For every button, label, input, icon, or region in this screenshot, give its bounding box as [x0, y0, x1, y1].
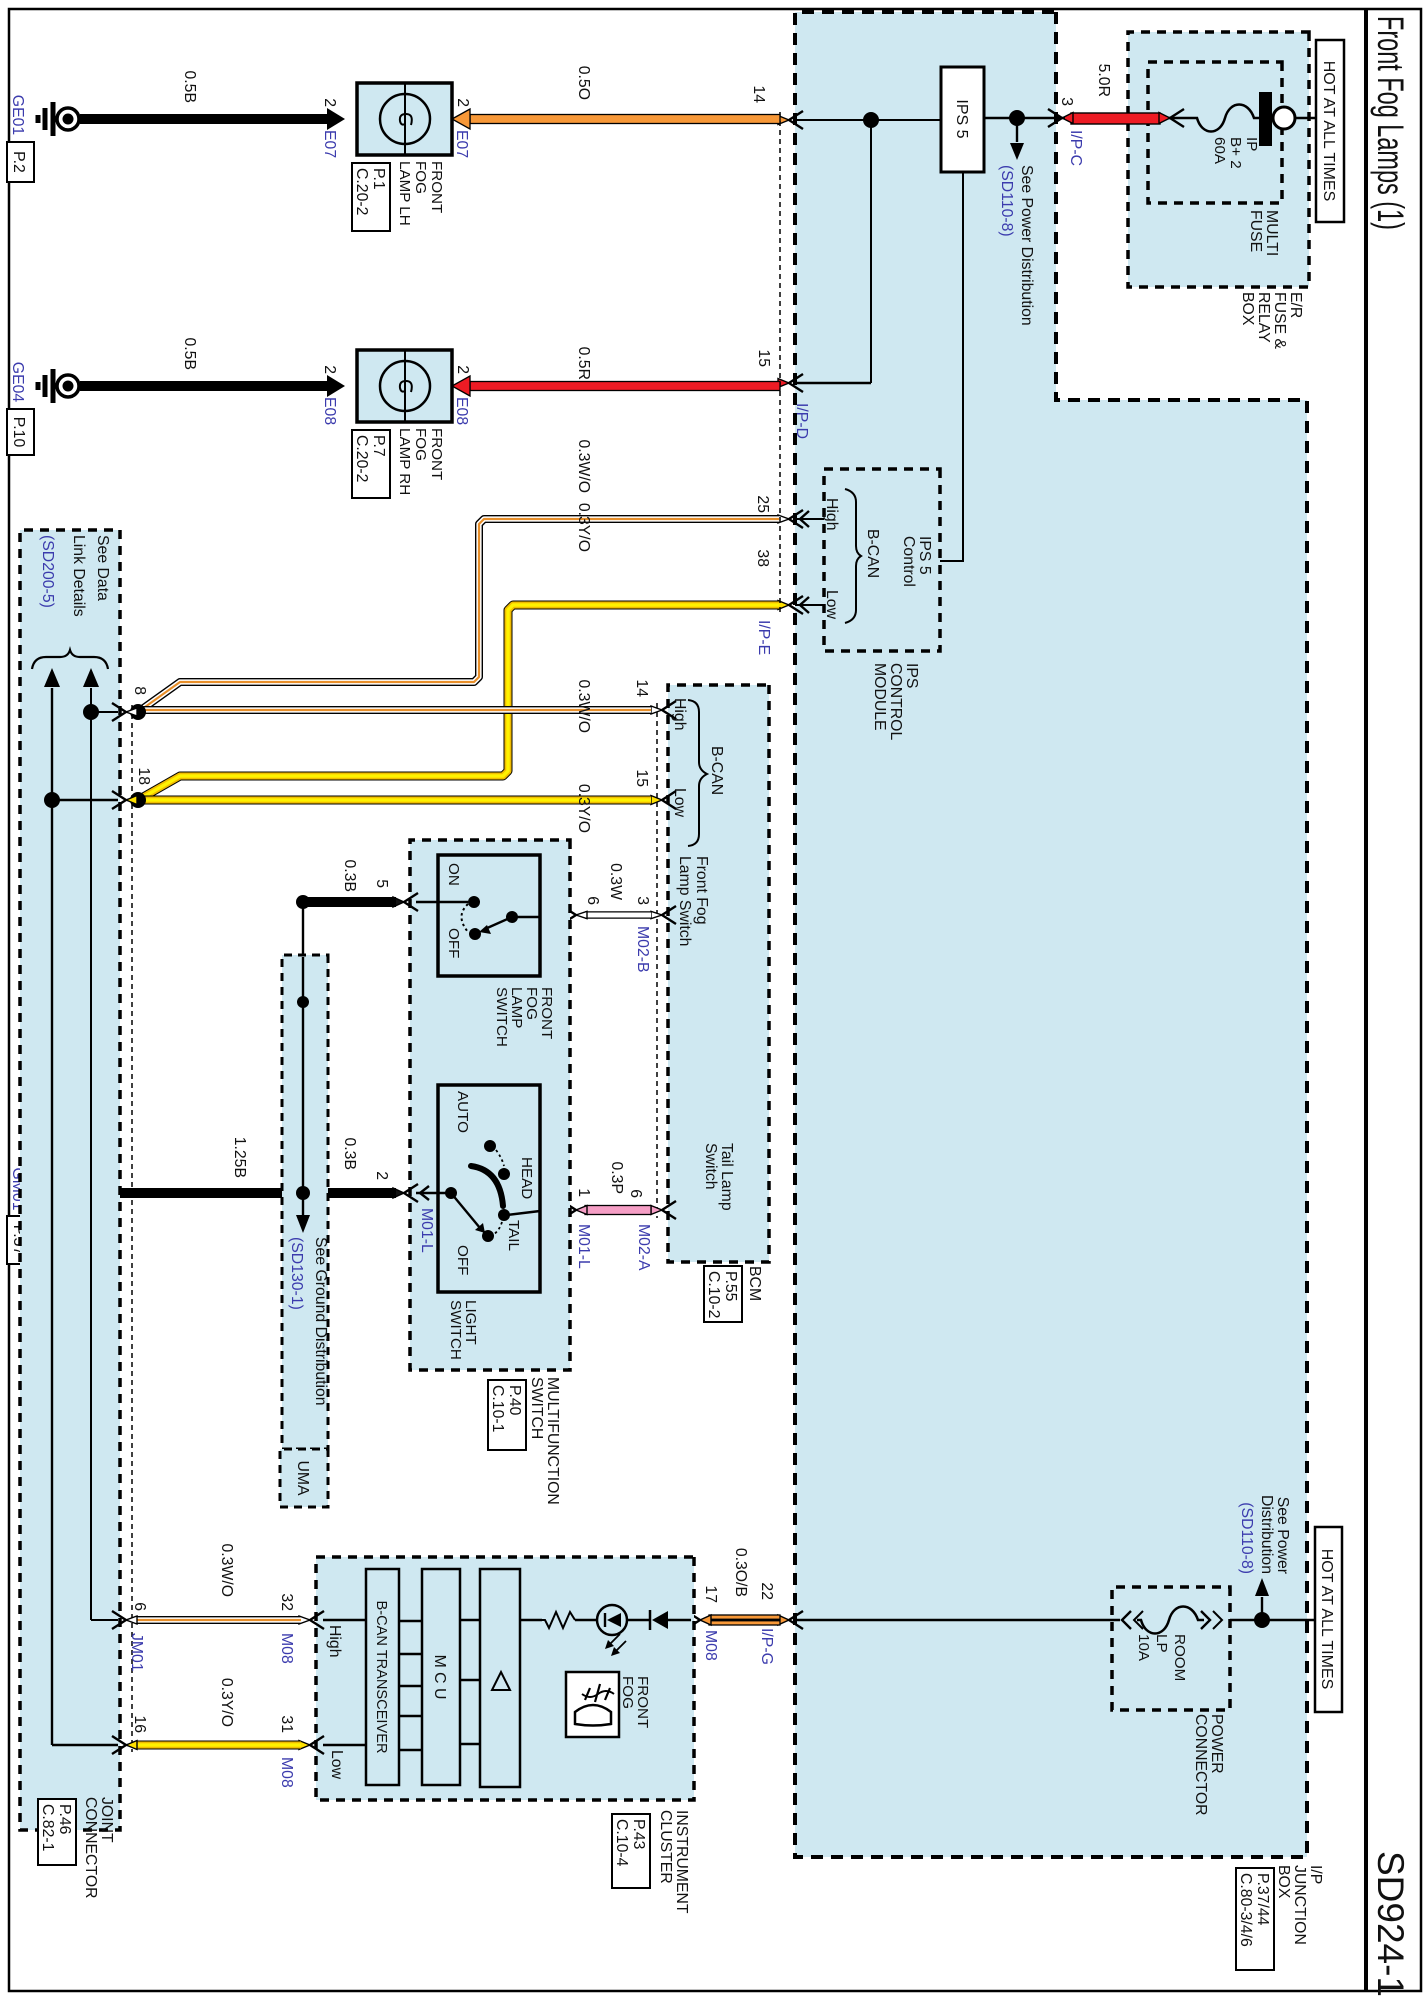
svg-text:See Data: See Data: [94, 535, 111, 601]
svg-text:C.20-2: C.20-2: [353, 435, 370, 482]
svg-text:38: 38: [754, 549, 771, 567]
svg-text:ON: ON: [445, 863, 462, 886]
svg-text:Link Details: Link Details: [70, 535, 87, 617]
svg-text:P.2: P.2: [10, 151, 27, 173]
svg-text:MULTI: MULTI: [1263, 210, 1280, 256]
svg-text:IP: IP: [1243, 137, 1260, 151]
svg-text:Low: Low: [328, 1750, 345, 1780]
svg-text:BCM: BCM: [746, 1266, 763, 1301]
svg-text:HEAD: HEAD: [518, 1157, 535, 1199]
svg-text:Lamp Switch: Lamp Switch: [676, 856, 693, 946]
svg-text:P.1: P.1: [370, 168, 387, 190]
svg-text:6: 6: [584, 896, 601, 905]
svg-text:1.25B: 1.25B: [231, 1137, 248, 1178]
svg-text:SWITCH: SWITCH: [528, 1377, 545, 1439]
svg-text:15: 15: [755, 349, 772, 367]
svg-text:IPS 5: IPS 5: [953, 99, 970, 138]
svg-text:32: 32: [278, 1593, 295, 1611]
svg-text:LAMP: LAMP: [508, 987, 525, 1028]
svg-text:FOG: FOG: [523, 987, 540, 1020]
svg-text:M08: M08: [278, 1633, 295, 1664]
svg-text:18: 18: [135, 767, 152, 785]
svg-text:I/P-G: I/P-G: [758, 1628, 775, 1665]
svg-text:P.46: P.46: [56, 1804, 73, 1835]
svg-text:IPS 5: IPS 5: [916, 536, 933, 575]
svg-text:BOX: BOX: [1239, 292, 1256, 326]
svg-text:Low: Low: [823, 590, 840, 620]
svg-text:See Power: See Power: [1274, 1497, 1291, 1574]
svg-text:C.10-4: C.10-4: [613, 1819, 630, 1867]
svg-text:0.3W/O: 0.3W/O: [218, 1543, 235, 1597]
svg-text:MODULE: MODULE: [871, 663, 888, 731]
svg-text:MULTIFUNCTION: MULTIFUNCTION: [544, 1377, 561, 1505]
svg-text:IPS: IPS: [903, 663, 920, 688]
svg-text:0.5B: 0.5B: [181, 71, 198, 104]
svg-text:I/P-D: I/P-D: [793, 403, 810, 439]
svg-text:E08: E08: [321, 397, 338, 425]
svg-text:I/P-E: I/P-E: [755, 620, 772, 655]
svg-text:UMA: UMA: [294, 1460, 311, 1496]
svg-text:M02-B: M02-B: [634, 926, 651, 973]
svg-text:2: 2: [454, 98, 471, 107]
svg-text:0.3Y/O: 0.3Y/O: [218, 1678, 235, 1727]
svg-text:(SD130-1): (SD130-1): [288, 1237, 305, 1310]
svg-text:GE01: GE01: [9, 95, 26, 136]
svg-text:CONNECTOR: CONNECTOR: [82, 1797, 99, 1899]
svg-text:FUSE &: FUSE &: [1271, 292, 1288, 350]
svg-text:8: 8: [131, 686, 148, 695]
svg-text:High: High: [326, 1625, 343, 1658]
svg-text:0.3W/O: 0.3W/O: [575, 679, 592, 733]
svg-text:LAMP LH: LAMP LH: [396, 161, 413, 226]
svg-text:FRONT: FRONT: [634, 1676, 651, 1728]
svg-text:3: 3: [634, 896, 651, 905]
svg-text:SWITCH: SWITCH: [447, 1300, 464, 1360]
svg-text:B-CAN: B-CAN: [864, 529, 881, 578]
svg-text:See Ground Distribution: See Ground Distribution: [312, 1237, 329, 1406]
svg-text:2: 2: [321, 365, 338, 374]
svg-text:14: 14: [750, 85, 767, 103]
svg-text:FRONT: FRONT: [538, 987, 555, 1039]
svg-text:0.5O: 0.5O: [575, 66, 592, 100]
svg-text:OFF: OFF: [445, 928, 462, 958]
svg-text:FOG: FOG: [412, 428, 429, 461]
svg-text:JUNCTION: JUNCTION: [1291, 1865, 1308, 1945]
svg-text:E07: E07: [453, 130, 470, 158]
svg-text:0.3Y/O: 0.3Y/O: [575, 503, 592, 552]
svg-text:See Power Distribution: See Power Distribution: [1018, 165, 1035, 326]
svg-text:16: 16: [131, 1715, 148, 1733]
svg-text:LIGHT: LIGHT: [462, 1300, 479, 1345]
svg-text:0.3Y/O: 0.3Y/O: [575, 784, 592, 833]
svg-text:5.0R: 5.0R: [1095, 64, 1112, 97]
svg-text:25: 25: [754, 495, 771, 513]
svg-text:P.37/44: P.37/44: [1254, 1873, 1271, 1926]
svg-text:C.10-1: C.10-1: [489, 1385, 506, 1433]
svg-text:FOG: FOG: [619, 1676, 636, 1709]
svg-text:B-CAN TRANSCEIVER: B-CAN TRANSCEIVER: [373, 1601, 389, 1754]
svg-text:0.3B: 0.3B: [341, 1138, 358, 1171]
svg-text:17: 17: [702, 1585, 719, 1603]
svg-text:1: 1: [575, 1188, 592, 1197]
svg-text:(SD110-8): (SD110-8): [998, 165, 1015, 237]
svg-text:5: 5: [373, 879, 390, 888]
svg-text:C.20-2: C.20-2: [353, 168, 370, 215]
svg-text:GE04: GE04: [9, 362, 26, 403]
svg-text:JOINT: JOINT: [98, 1797, 115, 1843]
svg-text:RELAY: RELAY: [1255, 292, 1272, 343]
svg-text:15: 15: [633, 769, 650, 787]
svg-text:E08: E08: [453, 397, 470, 425]
svg-text:LAMP RH: LAMP RH: [396, 428, 413, 495]
svg-text:0.3P: 0.3P: [608, 1162, 625, 1195]
svg-text:6: 6: [627, 1189, 644, 1198]
svg-text:(SD110-8): (SD110-8): [1238, 1502, 1255, 1574]
svg-text:FUSE: FUSE: [1247, 210, 1264, 252]
svg-text:M01-L: M01-L: [575, 1224, 592, 1269]
svg-text:P.55: P.55: [722, 1271, 739, 1302]
svg-text:0.5B: 0.5B: [181, 338, 198, 371]
svg-text:FRONT: FRONT: [428, 428, 445, 480]
svg-text:P.7: P.7: [370, 435, 387, 457]
svg-text:P.40: P.40: [506, 1385, 523, 1416]
svg-text:FRONT: FRONT: [428, 161, 445, 213]
svg-text:AUTO: AUTO: [454, 1091, 471, 1133]
svg-text:31: 31: [278, 1715, 295, 1733]
svg-text:I/P-C: I/P-C: [1067, 130, 1084, 166]
svg-text:SWITCH: SWITCH: [493, 987, 510, 1047]
svg-text:22: 22: [758, 1582, 775, 1600]
svg-text:B-CAN: B-CAN: [708, 746, 725, 795]
svg-text:P.43: P.43: [630, 1819, 647, 1850]
svg-text:0.5R: 0.5R: [575, 347, 592, 380]
svg-text:M01-L: M01-L: [418, 1208, 435, 1253]
svg-text:C.10-2: C.10-2: [705, 1271, 722, 1318]
svg-text:C.82-1: C.82-1: [39, 1804, 56, 1852]
svg-text:60A: 60A: [1211, 137, 1228, 165]
svg-text:JM01: JM01: [128, 1633, 145, 1672]
svg-text:10A: 10A: [1135, 1634, 1152, 1662]
svg-text:Front Fog: Front Fog: [693, 856, 710, 924]
svg-text:0.3O/B: 0.3O/B: [732, 1548, 749, 1597]
svg-text:E07: E07: [321, 130, 338, 158]
svg-text:Front Fog Lamps (1): Front Fog Lamps (1): [1370, 16, 1411, 230]
svg-text:14: 14: [633, 679, 650, 697]
svg-text:OFF: OFF: [454, 1245, 471, 1275]
svg-text:CLUSTER: CLUSTER: [657, 1810, 674, 1884]
svg-text:M08: M08: [278, 1757, 295, 1788]
svg-text:LP: LP: [1153, 1634, 1170, 1653]
svg-text:E/R: E/R: [1287, 292, 1304, 318]
svg-text:M08: M08: [702, 1630, 719, 1661]
svg-text:B+ 2: B+ 2: [1227, 137, 1244, 169]
svg-text:Switch: Switch: [702, 1143, 719, 1190]
svg-text:M02-A: M02-A: [635, 1224, 652, 1271]
svg-text:HOT AT ALL TIMES: HOT AT ALL TIMES: [1318, 1549, 1335, 1690]
svg-text:ROOM: ROOM: [1171, 1634, 1188, 1681]
svg-text:High: High: [823, 498, 840, 531]
svg-text:0.3B: 0.3B: [341, 860, 358, 893]
svg-text:CONTROL: CONTROL: [887, 663, 904, 740]
svg-text:Distribution: Distribution: [1258, 1495, 1275, 1574]
svg-text:0.3W/O: 0.3W/O: [575, 439, 592, 493]
svg-text:Control: Control: [900, 536, 917, 587]
svg-text:I/P: I/P: [1307, 1865, 1324, 1884]
svg-text:CONNECTOR: CONNECTOR: [1192, 1714, 1209, 1816]
svg-text:C.80-3/4/6: C.80-3/4/6: [1237, 1873, 1254, 1947]
svg-text:(SD200-5): (SD200-5): [39, 535, 56, 608]
svg-text:M C U: M C U: [431, 1655, 448, 1700]
svg-text:0.3W: 0.3W: [607, 863, 624, 900]
svg-text:TAIL: TAIL: [505, 1220, 522, 1251]
svg-text:P.10: P.10: [10, 417, 27, 448]
svg-text:INSTRUMENT: INSTRUMENT: [673, 1810, 690, 1914]
svg-text:2: 2: [454, 365, 471, 374]
svg-text:SD924-1: SD924-1: [1370, 1851, 1411, 1997]
svg-text:BOX: BOX: [1275, 1865, 1292, 1899]
svg-text:POWER: POWER: [1208, 1714, 1225, 1774]
svg-text:2: 2: [321, 98, 338, 107]
svg-text:3: 3: [1058, 97, 1075, 106]
svg-text:6: 6: [131, 1602, 148, 1611]
svg-text:Tail Lamp: Tail Lamp: [718, 1143, 735, 1211]
svg-text:FOG: FOG: [412, 161, 429, 194]
svg-text:2: 2: [373, 1171, 390, 1180]
svg-text:HOT AT ALL TIMES: HOT AT ALL TIMES: [1320, 61, 1337, 202]
